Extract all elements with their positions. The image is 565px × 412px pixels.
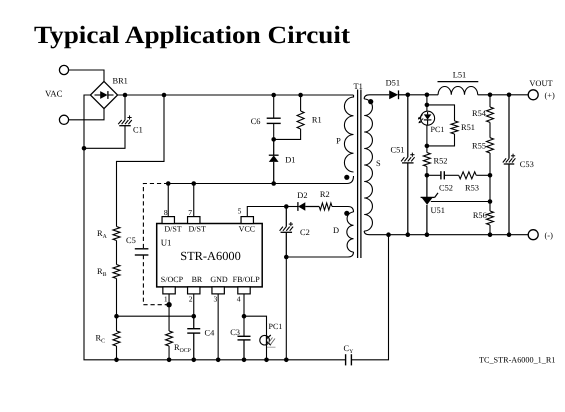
svg-text:R53: R53 (465, 184, 479, 193)
svg-text:(+): (+) (545, 91, 556, 100)
node pin7-drain (191, 181, 196, 186)
polarity dot auxiliary (344, 211, 349, 216)
svg-text:D51: D51 (386, 78, 400, 87)
node C2-ground (284, 358, 289, 363)
wire pin1 SOCP (168, 294, 170, 331)
resistor RA (113, 227, 120, 241)
wire primary top (353, 95, 355, 97)
resistor R55 (487, 138, 494, 153)
resistor R56 (487, 211, 494, 225)
node C51-ground (406, 232, 411, 237)
node R56-ground (488, 232, 493, 237)
wire L51 to VOUT (478, 94, 529, 96)
wire dashed C5 branch (143, 184, 168, 249)
wire RA to RB (116, 241, 118, 265)
svg-text:C53: C53 (520, 160, 534, 169)
transistor U51 shunt regulator (426, 175, 428, 197)
transistor PC1 photo side (260, 335, 270, 345)
svg-text:3: 3 (214, 294, 218, 303)
wire R52 top (426, 146, 428, 153)
terminal AC input top (59, 65, 68, 74)
polarity dot secondary (368, 99, 373, 104)
wire RC bottom lead (116, 346, 118, 360)
svg-text:R56: R56 (473, 211, 487, 220)
node D1-drain rail (271, 181, 276, 186)
wire aux bottom lead (286, 252, 353, 257)
svg-text:C3: C3 (230, 328, 240, 337)
transformer core T1 (357, 90, 359, 259)
wire C6 bottom lead (273, 123, 275, 139)
wire RB to BR node (116, 279, 118, 317)
svg-text:D2: D2 (297, 191, 307, 200)
diode D51 (389, 90, 398, 99)
wire main positive rail (118, 94, 354, 96)
svg-text:Typical Application Circuit: Typical Application Circuit (34, 22, 351, 49)
wire R56 to ground (489, 225, 491, 235)
svg-text:S: S (376, 159, 381, 168)
wire C1 bottom lead (84, 126, 125, 149)
svg-text:BR1: BR1 (113, 77, 128, 86)
svg-text:C51: C51 (391, 145, 405, 154)
node pin4-PC1 branch (242, 314, 247, 319)
wire secondary ground rail (370, 234, 529, 236)
capacitor C6 (267, 117, 281, 119)
svg-text:P: P (336, 137, 341, 146)
svg-text:7: 7 (188, 208, 192, 217)
svg-text:C4: C4 (205, 329, 216, 338)
resistor R1 (297, 111, 304, 129)
wire aux top lead (332, 207, 354, 213)
winding auxiliary D (347, 212, 354, 252)
winding primary P (344, 95, 353, 172)
node C3-ground (242, 358, 247, 363)
wire R54 top (489, 95, 491, 107)
svg-text:L51: L51 (453, 71, 467, 80)
svg-text:D/ST: D/ST (164, 224, 181, 233)
wire DC negative rail (84, 95, 345, 360)
svg-text:FB/OLP: FB/OLP (233, 275, 261, 284)
node pin2-C4 (191, 314, 196, 319)
svg-text:4: 4 (237, 294, 241, 303)
node R52-C52-U51 (425, 173, 430, 178)
wire drain rail (169, 176, 354, 184)
wire R1 bottom lead (274, 129, 301, 139)
wire node to ref node (489, 175, 491, 201)
node rail-RA branch (162, 93, 167, 98)
winding secondary S (364, 99, 372, 231)
capacitor C52 (440, 171, 442, 179)
wire R51 branch top (427, 105, 455, 121)
wire U51 ref (431, 201, 490, 203)
node PC1-ground (264, 358, 269, 363)
wire PC1 branch top (426, 95, 428, 112)
diode PC1 led side (421, 111, 435, 125)
node C4-ground (191, 358, 196, 363)
wire R52 bottom (426, 167, 428, 176)
wire PC1 emitter to ground (266, 345, 268, 360)
svg-text:(-): (-) (545, 231, 554, 240)
node pin1-C5 junction (166, 302, 171, 307)
node RB-RC-BR junction (114, 314, 119, 319)
node rail-R1 (298, 93, 303, 98)
terminal VOUT minus (528, 230, 538, 240)
svg-text:VOUT: VOUT (529, 79, 552, 88)
node C53-ground (507, 232, 512, 237)
capacitor C4 (193, 316, 195, 329)
node rail-R54 (488, 93, 493, 98)
node C6-R1-D1 junction (271, 137, 276, 142)
terminal VOUT plus (528, 90, 538, 100)
wire RC top lead (116, 316, 118, 331)
svg-text:R55: R55 (472, 141, 486, 150)
svg-text:C1: C1 (133, 126, 143, 135)
svg-text:5: 5 (238, 207, 242, 216)
svg-text:D1: D1 (285, 155, 295, 164)
resistor R53 (459, 172, 477, 179)
capacitor C53 (508, 95, 510, 159)
wire secondary bottom lead (364, 231, 369, 235)
svg-text:GND: GND (210, 275, 228, 284)
node R53-R55 (488, 173, 493, 178)
node GND-ground (216, 358, 221, 363)
capacitor C2 (285, 207, 287, 227)
svg-text:C52: C52 (439, 184, 453, 193)
svg-text:1: 1 (164, 294, 168, 303)
svg-text:VCC: VCC (239, 224, 255, 233)
node rail-C53 (507, 93, 512, 98)
node led-R51-R52 (425, 144, 430, 149)
wire AC bottom to bridge (69, 108, 104, 120)
svg-text:VAC: VAC (45, 89, 63, 99)
svg-text:STR-A6000: STR-A6000 (180, 249, 241, 263)
resistor ROCP (166, 331, 173, 346)
wire VCC to D2 (286, 206, 298, 208)
wire pin3 GND (217, 294, 219, 360)
resistor RC (113, 331, 120, 346)
svg-text:R52: R52 (434, 156, 448, 165)
node U51-ground (425, 232, 430, 237)
resistor R2 (319, 203, 332, 210)
wire pin8 to drain rail (167, 184, 169, 217)
node pin8-drain (166, 181, 171, 186)
inductor L51 (438, 86, 478, 94)
terminal AC input bottom (59, 115, 68, 124)
svg-text:R1: R1 (312, 116, 322, 125)
wire R54-R55 (489, 122, 491, 137)
wire CY riser (351, 235, 388, 360)
svg-text:PC1: PC1 (269, 322, 283, 331)
wire pin4 to PC1 (244, 316, 267, 336)
polarity dot primary (344, 175, 349, 180)
svg-text:8: 8 (164, 208, 168, 217)
wire pin7 to drain rail (193, 184, 195, 217)
wire C2 return to ground (285, 257, 287, 360)
svg-text:2: 2 (189, 294, 193, 303)
node C1 return (82, 146, 87, 151)
svg-text:D: D (333, 226, 339, 235)
resistor R51 (451, 121, 458, 134)
svg-text:BR: BR (192, 275, 203, 284)
capacitor C1 (118, 120, 122, 124)
node rail-C6 (271, 93, 276, 98)
svg-text:T1: T1 (354, 82, 363, 91)
svg-text:U51: U51 (431, 206, 445, 215)
svg-text:R2: R2 (320, 190, 330, 199)
wire to C52 (427, 174, 441, 176)
wire C6 top lead (273, 95, 275, 118)
wire VCC pin5 (247, 207, 286, 217)
wire pin2 BR (193, 294, 195, 316)
svg-text:R51: R51 (461, 123, 475, 132)
svg-text:C6: C6 (251, 117, 261, 126)
wire R55 to node (489, 153, 491, 175)
svg-text:C2: C2 (300, 228, 310, 237)
node ROCP-ground (167, 358, 172, 363)
node rail-C51 (406, 93, 411, 98)
node VCC-C2-D2 (284, 204, 289, 209)
capacitor C51 (407, 95, 409, 157)
svg-text:D/ST: D/ST (189, 224, 206, 233)
svg-text:PC1: PC1 (431, 125, 445, 134)
node rail-PC1 branch (425, 93, 430, 98)
wire rail to RA (117, 95, 165, 227)
diode D1 (273, 139, 275, 155)
wire R53 to R55 node (476, 174, 490, 176)
resistor R54 (487, 107, 494, 122)
resistor R52 (423, 153, 430, 167)
svg-text:R54: R54 (472, 109, 487, 118)
svg-text:S/OCP: S/OCP (161, 275, 184, 284)
svg-text:C5: C5 (126, 236, 136, 245)
wire BR node horizontal (117, 315, 195, 317)
wire R56 top lead (489, 202, 491, 212)
node RC-ground (114, 358, 119, 363)
capacitor C5 (135, 248, 149, 250)
capacitor CY (345, 354, 347, 365)
wire R1 top lead (300, 95, 302, 111)
bridge rectifier BR1 (90, 81, 117, 108)
capacitor C3 (238, 335, 251, 337)
op-amp U1 STR-A6000 body (157, 224, 263, 287)
wire ROCP to ground (168, 346, 170, 360)
svg-text:U1: U1 (161, 238, 172, 248)
wire pin4 FB (243, 294, 245, 336)
node rail-C1 (123, 93, 128, 98)
wire led bottom (426, 125, 428, 146)
diode D2 (297, 202, 299, 211)
svg-text:TC_STR-A6000_1_R1: TC_STR-A6000_1_R1 (479, 356, 555, 365)
resistor RB (113, 265, 120, 279)
wire AC top to bridge (69, 70, 104, 82)
node CY riser (386, 232, 391, 237)
wire C1 top lead (124, 95, 126, 120)
node PC1-R51 top (425, 103, 430, 108)
node U51 ref-R56 (488, 199, 493, 204)
wire R51 bottom (427, 134, 455, 146)
node C2-aux return (284, 255, 289, 260)
wire secondary rail to L51 (408, 94, 438, 96)
wire secondary top lead (364, 95, 389, 99)
wire C52 to R53 (444, 174, 458, 176)
